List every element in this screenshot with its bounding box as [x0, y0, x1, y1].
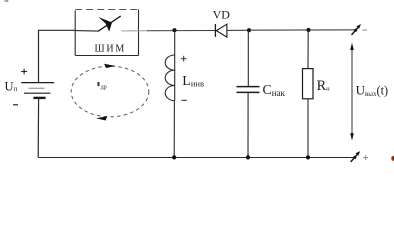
wire inductor top lead: [174, 30, 176, 55]
label - (battery): [13, 104, 18, 106]
svg-text:ШИМ: ШИМ: [95, 44, 127, 55]
scan artifacts (decorative): [5, 0, 6, 2]
output terminal bottom (arrow): [351, 151, 361, 162]
resistor R_n: [303, 30, 314, 157]
wire battery negative lead: [37, 98, 39, 158]
wire diode to node A: [227, 29, 249, 31]
U_out(t) measurement double arrow: [350, 43, 354, 141]
capacitor C_nak: [237, 30, 260, 157]
wire top rail from battery corner to PWM box: [38, 29, 75, 31]
svg-text:VD: VD: [213, 7, 231, 21]
inductor L_inv coil: [165, 55, 175, 101]
label I_dr: [97, 82, 99, 86]
bottom rail wire: [38, 157, 356, 159]
node L (inductor top junction): [172, 28, 176, 32]
junction dot (resistor bottom): [306, 155, 310, 159]
label + (bottom output polarity): [363, 155, 368, 160]
wire node B to output terminal top: [309, 29, 357, 31]
battery U_p: [21, 83, 54, 98]
label + (inductor top): [181, 56, 187, 62]
diode VD: [215, 24, 227, 37]
wire inductor bottom lead: [173, 101, 175, 158]
wire PWM box to diode: [147, 30, 215, 32]
junction dot (inductor bottom): [172, 155, 176, 159]
node B (resistor junction): [306, 28, 310, 32]
svg-text:др: др: [101, 84, 107, 90]
PWM block ШИМ box: [75, 10, 138, 56]
node A (diode/capacitor junction): [247, 28, 251, 32]
output terminal top (arrow): [352, 24, 362, 35]
label + (battery): [21, 69, 27, 75]
current loop I_dr (dashed ellipse): [71, 64, 149, 121]
wire switch to PWM box right edge (faint): [122, 30, 148, 32]
label - (inductor bottom): [182, 99, 187, 101]
label minus (top output polarity): [363, 29, 368, 31]
wire battery positive lead (vertical): [38, 30, 40, 82]
junction dot (capacitor bottom): [246, 155, 250, 159]
wire node A to node B: [249, 29, 309, 31]
switch S (PWM controlled key): [75, 16, 121, 32]
